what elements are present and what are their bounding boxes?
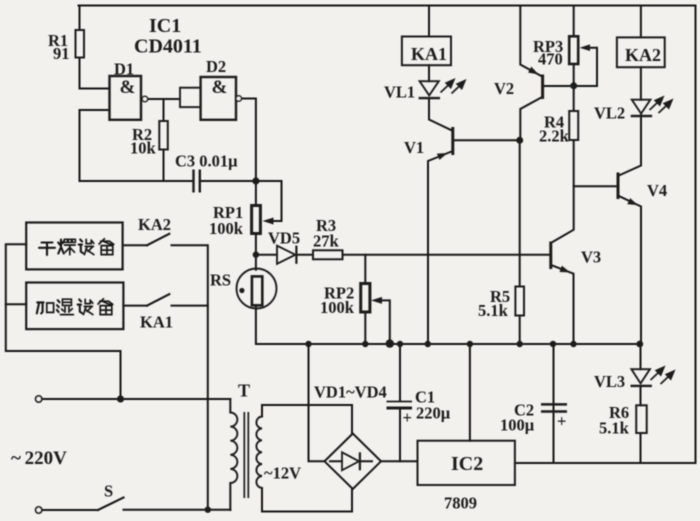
svg-text:V1: V1 bbox=[404, 138, 424, 157]
svg-text:5.1k: 5.1k bbox=[599, 419, 630, 438]
svg-text:VL1: VL1 bbox=[384, 83, 415, 102]
svg-text:+: + bbox=[557, 412, 566, 431]
svg-text:VD1~VD4: VD1~VD4 bbox=[314, 383, 387, 402]
svg-text:VL2: VL2 bbox=[594, 104, 625, 123]
svg-text:KA2: KA2 bbox=[625, 45, 661, 65]
svg-text:470: 470 bbox=[538, 50, 563, 69]
svg-text:IC2: IC2 bbox=[451, 453, 483, 475]
svg-text:2.2k: 2.2k bbox=[539, 127, 570, 146]
svg-text:220μ: 220μ bbox=[416, 404, 451, 423]
svg-text:7809: 7809 bbox=[444, 494, 477, 513]
svg-text:C3 0.01μ: C3 0.01μ bbox=[175, 152, 238, 171]
svg-text:V2: V2 bbox=[494, 79, 514, 98]
svg-text:10k: 10k bbox=[130, 139, 157, 158]
svg-text:100k: 100k bbox=[320, 298, 355, 317]
svg-text:91: 91 bbox=[53, 44, 70, 63]
svg-text:CD4011: CD4011 bbox=[134, 36, 202, 58]
svg-text:D1: D1 bbox=[114, 60, 134, 79]
svg-text:V3: V3 bbox=[581, 248, 601, 267]
svg-text:KA2: KA2 bbox=[138, 215, 171, 234]
svg-text:5.1k: 5.1k bbox=[478, 301, 509, 320]
svg-text:S: S bbox=[104, 482, 113, 501]
svg-text:100μ: 100μ bbox=[500, 416, 535, 435]
svg-text:IC1: IC1 bbox=[149, 15, 181, 37]
svg-text:27k: 27k bbox=[313, 232, 340, 251]
svg-text:VL3: VL3 bbox=[594, 372, 625, 391]
svg-text:V4: V4 bbox=[647, 181, 667, 200]
svg-text:RS: RS bbox=[210, 271, 231, 290]
svg-text:~12V: ~12V bbox=[264, 464, 301, 483]
svg-text:VD5: VD5 bbox=[268, 229, 300, 248]
svg-text:&: & bbox=[120, 77, 136, 98]
svg-text:+: + bbox=[403, 408, 412, 427]
svg-text:T: T bbox=[238, 381, 250, 401]
svg-text:100k: 100k bbox=[209, 219, 244, 238]
svg-text:&: & bbox=[212, 77, 228, 98]
svg-text:D2: D2 bbox=[206, 57, 226, 76]
svg-text:KA1: KA1 bbox=[411, 44, 447, 64]
svg-text:~ 220V: ~ 220V bbox=[11, 448, 67, 469]
svg-text:KA1: KA1 bbox=[140, 313, 173, 332]
